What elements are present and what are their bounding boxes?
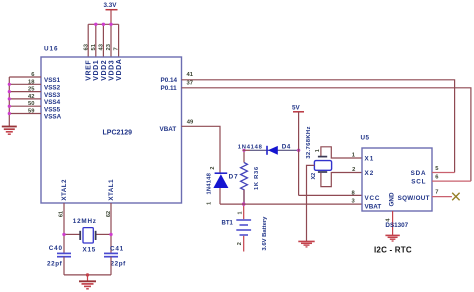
svg-text:23: 23 [106, 43, 112, 50]
wire VDD2 drop [102, 24, 104, 57]
svg-text:1: 1 [315, 149, 321, 152]
wire VDDA drop [118, 24, 120, 57]
svg-text:32.768KHz: 32.768KHz [306, 126, 312, 159]
ground (U5) [385, 235, 399, 241]
svg-text:2: 2 [210, 167, 216, 170]
svg-text:2: 2 [237, 242, 243, 245]
crystal X15 [80, 228, 95, 243]
svg-text:2: 2 [352, 167, 355, 173]
wire P0.11 [182, 88, 471, 181]
wire SQW/OUT stub [432, 196, 452, 198]
wire VSS3 [9, 91, 41, 93]
svg-text:X2: X2 [365, 170, 375, 177]
resistor R36 [241, 150, 248, 204]
wire VBAT (U16 pin 49) [182, 126, 221, 173]
svg-text:VREF: VREF [86, 60, 93, 81]
svg-text:37: 37 [187, 80, 193, 86]
no-connect X (pin 7) [452, 193, 459, 200]
wire VSS5 [9, 105, 41, 107]
svg-text:50: 50 [28, 101, 34, 107]
svg-text:SDA: SDA [411, 170, 427, 177]
wire VSS4 [9, 98, 41, 100]
svg-text:P0.14: P0.14 [161, 77, 178, 84]
svg-text:5: 5 [435, 166, 439, 172]
wire VDD3 drop [110, 24, 112, 57]
svg-text:22pf: 22pf [111, 261, 127, 268]
wire D4 row [243, 149, 251, 151]
junction dots on VDD rail [94, 23, 113, 26]
svg-text:DS1307: DS1307 [385, 222, 408, 229]
wire crystal case to ground [307, 165, 315, 241]
svg-text:VSSA: VSSA [44, 114, 62, 121]
wire VSSA [9, 113, 41, 115]
svg-text:VSS4: VSS4 [44, 99, 61, 106]
svg-text:GND: GND [389, 192, 396, 206]
wire XTAL2 down [63, 203, 65, 253]
diode D4 1N4148 [267, 146, 278, 155]
wire C41 down [110, 257, 112, 275]
svg-text:51: 51 [91, 43, 97, 50]
svg-text:X2: X2 [311, 173, 317, 180]
svg-text:VBAT: VBAT [160, 126, 177, 133]
svg-text:X15: X15 [83, 247, 97, 254]
ground (VSS bus) [2, 127, 17, 135]
svg-text:P0.11: P0.11 [161, 85, 178, 92]
svg-text:1K R36: 1K R36 [254, 166, 260, 190]
svg-text:3.3V: 3.3V [104, 2, 118, 9]
wire VCC (U5) [299, 194, 362, 196]
svg-text:VSS2: VSS2 [44, 85, 61, 92]
svg-text:U5: U5 [361, 135, 370, 142]
IC U5 DS1307 [362, 148, 432, 211]
svg-text:U16: U16 [44, 46, 59, 53]
svg-text:I2C - RTC: I2C - RTC [374, 245, 412, 254]
svg-text:SCL: SCL [411, 178, 426, 185]
svg-text:41: 41 [187, 72, 194, 78]
svg-text:59: 59 [28, 109, 35, 115]
svg-text:BT1: BT1 [222, 220, 234, 226]
wire VSS bus vertical [8, 77, 10, 126]
wire VSS1 [9, 76, 41, 78]
svg-text:18: 18 [28, 79, 35, 85]
svg-text:5V: 5V [292, 104, 301, 111]
svg-text:1: 1 [237, 211, 243, 214]
svg-text:XTAL2: XTAL2 [61, 179, 68, 201]
junction dot xtal rail [86, 273, 89, 276]
wire C40 down [63, 257, 65, 275]
svg-text:VDDA: VDDA [116, 59, 123, 81]
svg-text:X1: X1 [365, 156, 375, 163]
svg-text:VCC: VCC [365, 195, 381, 202]
svg-text:49: 49 [187, 120, 194, 126]
wire crystal right [96, 233, 111, 235]
svg-text:VSS5: VSS5 [44, 106, 61, 113]
svg-text:63: 63 [83, 43, 89, 50]
svg-text:VDD1: VDD1 [93, 60, 100, 81]
wire crystal left [64, 233, 80, 235]
svg-text:43: 43 [99, 43, 105, 50]
wire SCL [432, 180, 471, 182]
svg-text:C41: C41 [110, 246, 124, 253]
battery BT1 [236, 204, 251, 251]
wire VREF drop [87, 24, 89, 57]
wire XTAL1 down [110, 203, 112, 253]
svg-text:42: 42 [28, 94, 34, 100]
svg-text:D4: D4 [282, 144, 291, 151]
junction dot battery top [242, 202, 246, 206]
svg-text:7: 7 [114, 47, 120, 50]
svg-text:VDD3: VDD3 [108, 60, 115, 81]
ground (crystal case) [298, 241, 314, 247]
svg-text:1: 1 [207, 202, 213, 205]
svg-text:3.6V Battery: 3.6V Battery [262, 216, 268, 251]
svg-text:LPC2129: LPC2129 [103, 130, 133, 137]
wire VBAT (U5) [220, 203, 362, 205]
junction dot crystal left [62, 233, 65, 236]
power 3.3V [104, 2, 118, 24]
capacitor C41 [104, 253, 118, 256]
svg-text:3: 3 [351, 198, 355, 204]
svg-text:VDD2: VDD2 [101, 60, 108, 81]
junction dot R36 top [242, 149, 245, 152]
svg-text:22pf: 22pf [47, 261, 63, 268]
crystal X2 32.768KHz [314, 147, 362, 187]
svg-text:25: 25 [28, 87, 35, 93]
svg-text:1N4148: 1N4148 [206, 172, 212, 194]
diode D7 1N4148 [213, 173, 228, 204]
junction dot D4/5V [297, 149, 300, 152]
wire SDA [432, 172, 455, 174]
svg-text:6: 6 [435, 175, 439, 181]
svg-text:VSS1: VSS1 [44, 77, 61, 84]
svg-text:C40: C40 [49, 245, 63, 252]
svg-text:D7: D7 [229, 173, 239, 180]
wire P0.14 [182, 80, 455, 173]
junction dot crystal right [109, 233, 112, 236]
svg-text:1N4148: 1N4148 [238, 145, 263, 151]
wire xtal ground rail [64, 274, 111, 276]
svg-text:VSS3: VSS3 [44, 92, 61, 99]
svg-text:7: 7 [435, 190, 438, 196]
svg-text:XTAL1: XTAL1 [108, 179, 115, 201]
capacitor C40 [57, 253, 71, 256]
svg-text:12MHz: 12MHz [73, 218, 97, 225]
ground (xtal) [79, 275, 96, 289]
junction dots VSS bus [8, 83, 11, 115]
svg-text:VBAT: VBAT [365, 203, 382, 210]
wire VDD rail [88, 23, 118, 25]
svg-text:SQW/OUT: SQW/OUT [398, 195, 430, 202]
wire VDD1 drop [95, 24, 97, 57]
wire GND stem (U5) [392, 211, 394, 235]
wire VSS2 [9, 83, 41, 85]
power 5V [292, 104, 304, 195]
IC U16 LPC2129 [41, 57, 182, 203]
